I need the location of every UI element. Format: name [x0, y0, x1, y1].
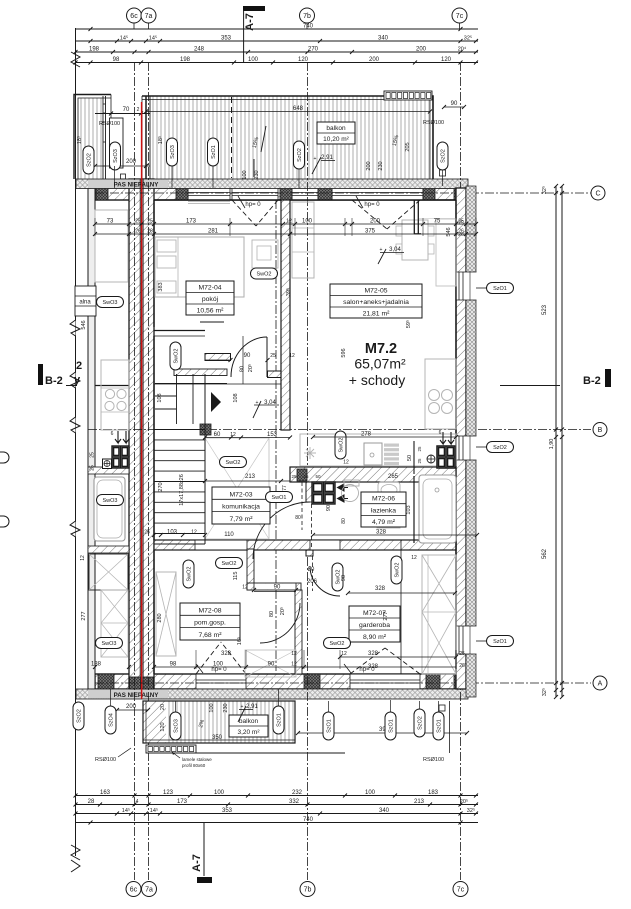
top dimension line row1 — [76, 28, 479, 30]
svg-text:200: 200 — [126, 704, 137, 710]
svg-text:8,90 m²: 8,90 m² — [363, 634, 387, 641]
break mark left line top — [71, 52, 80, 67]
top exterior wall — [95, 188, 466, 200]
grid circle 7b bottom — [300, 882, 315, 897]
door label SwO2 pomgosp wall — [183, 560, 194, 588]
bottom wall pillar 1 — [98, 674, 114, 689]
hall dim line vertical — [242, 336, 244, 384]
svg-text:SzO4: SzO4 — [109, 713, 115, 727]
svg-text:21,81 m²: 21,81 m² — [363, 311, 391, 318]
landing line — [154, 383, 281, 385]
interior wall stub pomgosp — [247, 549, 254, 590]
svg-text:200: 200 — [416, 47, 427, 53]
svg-text:M72-06: M72-06 — [372, 496, 395, 503]
svg-text:+ schody: + schody — [349, 372, 405, 388]
svg-text:7,79 m²: 7,79 m² — [229, 516, 253, 523]
svg-text:26: 26 — [135, 229, 141, 235]
dim extension lines bottom rooms — [94, 650, 96, 669]
party wall centre lines — [139, 179, 141, 689]
bottom wall door opening — [196, 675, 246, 689]
window label SzO2 bottom 4 — [414, 709, 425, 737]
svg-text:98: 98 — [113, 57, 120, 63]
door leaf dashed garderoba — [312, 556, 314, 591]
room label M7.2-04 — [186, 281, 234, 315]
svg-text:173: 173 — [186, 219, 197, 225]
window label SzO1 bottom 1 — [273, 706, 284, 734]
room label M7.2-03 — [212, 487, 270, 524]
break mark left line bottom — [71, 845, 80, 872]
svg-text:RSØ100: RSØ100 — [423, 120, 444, 126]
bottom balcony hatch left part — [143, 701, 166, 743]
svg-text:383: 383 — [158, 282, 164, 291]
interior wall kitchen block — [200, 424, 211, 435]
svg-text:80: 80 — [240, 366, 246, 372]
window label SzO2 right 2 — [476, 446, 487, 448]
top balcony dim 90 — [444, 106, 464, 108]
svg-text:25: 25 — [291, 474, 297, 479]
dim 328 garderoba upper — [348, 592, 455, 594]
svg-text:265: 265 — [388, 474, 399, 480]
svg-text:80: 80 — [295, 515, 301, 521]
grid circle C right — [591, 186, 605, 200]
svg-text:596: 596 — [341, 348, 347, 357]
vent shaft bathroom — [312, 482, 335, 504]
wardrobe garderoba — [422, 555, 456, 674]
svg-text:277: 277 — [383, 611, 389, 620]
svg-text:balkon: balkon — [326, 125, 346, 132]
svg-text:546: 546 — [81, 320, 87, 329]
svg-text:6: 6 — [111, 431, 114, 437]
bottom dimension line row2 — [76, 804, 479, 806]
garderoba window dashed swing bottom — [350, 648, 385, 674]
svg-text:7a: 7a — [145, 887, 153, 894]
svg-text:alna: alna — [79, 300, 91, 306]
svg-text:B-2: B-2 — [45, 375, 63, 387]
svg-text:komunikacja: komunikacja — [222, 504, 260, 511]
interior wall bath north pillar — [297, 469, 307, 481]
svg-text:90: 90 — [274, 585, 281, 591]
door arc garderoba — [310, 566, 340, 596]
svg-text:28: 28 — [88, 799, 95, 805]
svg-text:hp= 0: hp= 0 — [364, 202, 380, 208]
unit balcony left parapet — [141, 96, 143, 179]
window dashed swing top 2 — [352, 200, 387, 229]
svg-text:hp= 0: hp= 0 — [359, 667, 375, 673]
svg-text:340: 340 — [378, 36, 389, 42]
svg-text:120: 120 — [298, 57, 309, 63]
svg-text:20⁵: 20⁵ — [247, 364, 254, 372]
grid line 7c — [460, 62, 462, 880]
top wall pillar 6 — [454, 188, 466, 200]
svg-text:90: 90 — [341, 575, 347, 581]
top wall window opening 4 — [332, 189, 423, 200]
svg-text:SzO3: SzO3 — [113, 149, 119, 163]
svg-text:12: 12 — [191, 530, 197, 536]
svg-text:18⁵: 18⁵ — [157, 136, 164, 144]
svg-text:183: 183 — [428, 790, 439, 796]
svg-text:14⁵: 14⁵ — [149, 35, 157, 42]
svg-text:25: 25 — [135, 219, 141, 225]
svg-text:6c: 6c — [130, 13, 138, 20]
room label M7.2-06 — [361, 492, 406, 527]
neighbour kitchen counter — [101, 360, 129, 430]
door label SwO3 left 1 — [97, 297, 124, 308]
svg-text:+: + — [256, 400, 259, 406]
svg-text:213: 213 — [414, 799, 425, 805]
top dimension line row4 — [76, 62, 479, 64]
svg-text:3,20 m²: 3,20 m² — [237, 729, 260, 736]
svg-text:230: 230 — [254, 170, 260, 179]
kitchen hob star — [304, 447, 316, 459]
svg-text:90: 90 — [451, 101, 458, 107]
interior wall pokoj south niche — [268, 371, 282, 378]
room label M7.2-05 — [330, 284, 422, 318]
svg-text:M72-03: M72-03 — [229, 491, 252, 498]
stair direction arrow — [211, 392, 221, 412]
svg-text:138: 138 — [91, 662, 102, 668]
svg-text:108: 108 — [233, 393, 239, 402]
top wall window opening 3 — [292, 189, 318, 200]
svg-text:80: 80 — [308, 567, 315, 573]
svg-text:10,20 m²: 10,20 m² — [323, 136, 349, 143]
svg-text:14⁵: 14⁵ — [122, 807, 130, 814]
bottom balcony level mark 2,91 — [238, 706, 246, 722]
svg-text:80: 80 — [269, 611, 275, 617]
stair landing hatch strip — [174, 369, 227, 376]
dim row bottom rooms — [154, 666, 456, 668]
svg-text:pokój: pokój — [202, 296, 219, 303]
svg-text:PAS NIEPALNY: PAS NIEPALNY — [114, 182, 160, 189]
svg-text:SzO2: SzO2 — [297, 148, 303, 162]
svg-text:205: 205 — [405, 142, 411, 151]
svg-text:59⁵: 59⁵ — [405, 320, 412, 328]
stair side wall lines — [153, 374, 155, 544]
svg-text:248: 248 — [194, 47, 205, 53]
svg-text:16⁵: 16⁵ — [236, 637, 243, 645]
top balcony dim separator line — [253, 159, 255, 177]
svg-text:12: 12 — [80, 555, 86, 561]
svg-text:25: 25 — [90, 465, 96, 471]
svg-text:A: A — [598, 681, 603, 688]
svg-text:200: 200 — [370, 219, 381, 225]
svg-text:230: 230 — [223, 703, 229, 712]
salon sideboard right — [436, 219, 456, 286]
window label SzO2 top mid — [294, 141, 305, 169]
svg-text:salon+aneks+jadalnia: salon+aneks+jadalnia — [343, 299, 409, 306]
right dim tick — [554, 184, 558, 188]
svg-text:328: 328 — [368, 651, 379, 657]
svg-text:profil 80x60: profil 80x60 — [182, 763, 206, 768]
svg-text:C: C — [595, 191, 600, 198]
window label SzO1 right 3 — [476, 640, 487, 642]
interior wall bath west — [306, 482, 313, 556]
svg-text:100: 100 — [248, 57, 259, 63]
top balcony neighbour parapet corner — [74, 95, 111, 180]
svg-text:SwO2: SwO2 — [339, 438, 345, 453]
leader lines top stadiums — [114, 166, 116, 188]
svg-text:108: 108 — [157, 393, 163, 402]
bath partition line — [413, 476, 415, 543]
svg-text:80: 80 — [341, 518, 347, 524]
svg-text:12: 12 — [291, 651, 297, 657]
cropped stadium fragment left edge 2 — [0, 516, 9, 527]
fire strip band bottom — [76, 689, 468, 699]
svg-text:7,68 m²: 7,68 m² — [198, 632, 222, 639]
svg-text:26: 26 — [458, 232, 464, 238]
svg-text:12: 12 — [289, 353, 295, 359]
svg-text:1,90: 1,90 — [549, 439, 555, 450]
salon wardrobe left — [292, 202, 314, 278]
top balcony dim 648 — [146, 111, 430, 113]
salon niche dim 75 line — [419, 218, 455, 220]
svg-text:4,79 m²: 4,79 m² — [372, 519, 396, 526]
interior wall middle horizontal — [154, 540, 456, 550]
interior wall bath north — [290, 467, 456, 482]
svg-text:SwO3: SwO3 — [102, 641, 117, 647]
svg-text:328: 328 — [375, 586, 386, 592]
level mark 3,04 stairs — [253, 401, 261, 418]
grid circle B right — [593, 423, 607, 437]
svg-text:100: 100 — [365, 790, 376, 796]
svg-text:SwO3: SwO3 — [103, 498, 118, 504]
svg-text:7a: 7a — [145, 13, 153, 20]
svg-text:M72-05: M72-05 — [364, 288, 387, 295]
svg-text:100: 100 — [302, 219, 313, 225]
door label SwO2 pokoj party wall — [170, 342, 181, 370]
interior wall bath west door opening — [306, 502, 314, 549]
svg-text:740: 740 — [303, 817, 314, 823]
svg-text:100: 100 — [242, 170, 248, 179]
svg-text:2,91: 2,91 — [246, 704, 258, 710]
door arc bathroom — [253, 502, 310, 559]
svg-text:+: + — [241, 704, 244, 710]
top wall pillar 4 — [318, 188, 332, 200]
svg-text:280: 280 — [157, 613, 163, 622]
svg-text:3,04: 3,04 — [264, 400, 276, 406]
bottom balcony dim 390 — [298, 732, 467, 734]
interior wall pokoj south left — [205, 354, 231, 361]
grid line 7b — [307, 62, 309, 880]
garderoba inner partition line — [400, 540, 402, 674]
svg-text:163: 163 — [100, 790, 111, 796]
grid line 6c — [134, 62, 136, 880]
svg-text:12: 12 — [291, 662, 297, 668]
bottom wall pillar 4 — [454, 674, 466, 689]
right dim tick — [554, 435, 558, 439]
svg-text:25: 25 — [417, 458, 422, 464]
svg-text:SzO1: SzO1 — [437, 719, 443, 733]
kitchen stove circles — [429, 390, 440, 401]
door label SwO3 left 2 — [97, 495, 124, 506]
grid circle 7c top — [452, 8, 467, 23]
dim texts hall row — [205, 437, 290, 439]
right dimension line 1 — [555, 186, 557, 697]
svg-text:153: 153 — [267, 432, 278, 438]
vent arrows neighbour — [115, 431, 121, 443]
vent shaft kitchen right — [437, 446, 455, 468]
break marks left line middle — [70, 320, 80, 336]
svg-text:230: 230 — [378, 161, 384, 170]
interior wall center vertical — [281, 200, 290, 430]
svg-text:278: 278 — [361, 432, 372, 438]
svg-text:270: 270 — [158, 482, 164, 491]
svg-text:SwO2: SwO2 — [187, 567, 193, 582]
svg-text:7c: 7c — [456, 13, 464, 20]
svg-text:90: 90 — [326, 505, 332, 511]
svg-text:123: 123 — [163, 790, 174, 796]
top dimension line row3 — [76, 51, 479, 53]
interior wall middle opening 1 — [195, 541, 247, 550]
svg-text:A-7: A-7 — [244, 13, 256, 31]
right wall window 1 — [456, 272, 477, 300]
top wall pillar 1 — [96, 188, 108, 200]
top balcony label box balkon — [317, 122, 355, 144]
svg-text:70: 70 — [123, 107, 130, 113]
svg-text:270: 270 — [308, 47, 319, 53]
svg-text:90: 90 — [244, 353, 251, 359]
svg-text:60: 60 — [214, 432, 221, 438]
svg-text:90: 90 — [268, 662, 275, 668]
dim row salon top — [290, 223, 476, 225]
wardrobe neighbour top — [89, 554, 128, 590]
svg-text:100: 100 — [213, 662, 224, 668]
door label SwO2 pokoj top — [251, 268, 278, 279]
party wall red line — [141, 102, 143, 699]
kitchen niche jamb line — [413, 441, 415, 474]
svg-text:26: 26 — [459, 663, 465, 669]
svg-text:+: + — [314, 156, 317, 162]
kitchen drainboard — [384, 444, 399, 447]
svg-text:12: 12 — [343, 460, 349, 466]
top wall window opening 2 — [232, 189, 278, 200]
right dimension line 2 — [561, 186, 563, 697]
svg-text:340: 340 — [379, 808, 390, 814]
svg-text:277: 277 — [81, 611, 87, 620]
svg-text:B-2: B-2 — [583, 375, 601, 387]
section marker A-7 top — [243, 6, 265, 11]
bottom wall pillar 2 — [304, 674, 320, 689]
interior wall pomgosp door wall — [247, 583, 301, 590]
svg-text:20⁵: 20⁵ — [279, 607, 286, 615]
svg-text:12: 12 — [411, 555, 417, 561]
svg-text:SzO2: SzO2 — [87, 153, 93, 167]
svg-text:25: 25 — [458, 221, 464, 227]
svg-text:353: 353 — [221, 36, 232, 42]
svg-text:75: 75 — [434, 219, 441, 225]
svg-text:2,91: 2,91 — [321, 155, 333, 161]
bed pokoj — [155, 237, 244, 297]
svg-text:39⁵: 39⁵ — [285, 288, 292, 296]
door leaf pokoj — [266, 337, 268, 377]
svg-text:25: 25 — [459, 651, 465, 657]
svg-text:SwO2: SwO2 — [257, 272, 272, 278]
svg-text:65,07m²: 65,07m² — [354, 356, 406, 372]
svg-text:332: 332 — [289, 799, 300, 805]
dim extension lines top rooms — [94, 218, 96, 236]
level mark 3,04 salon — [378, 249, 386, 264]
svg-text:20⁴: 20⁴ — [458, 46, 467, 53]
svg-text:12: 12 — [242, 585, 248, 591]
svg-text:RSØ100: RSØ100 — [423, 757, 444, 763]
svg-text:SwO2: SwO2 — [395, 563, 401, 578]
svg-text:25: 25 — [144, 530, 150, 536]
svg-text:206: 206 — [307, 579, 318, 585]
shaft arrows bath — [338, 484, 349, 491]
svg-text:SzO1: SzO1 — [277, 713, 283, 727]
svg-text:50: 50 — [407, 455, 413, 461]
section marker A-7 bottom — [203, 823, 205, 876]
neighbour bed — [95, 210, 128, 282]
svg-text:hp= 0: hp= 0 — [245, 202, 261, 208]
svg-text:14⁵: 14⁵ — [120, 35, 128, 42]
svg-text:100: 100 — [209, 703, 215, 712]
svg-text:14⁵: 14⁵ — [150, 807, 158, 814]
svg-text:PAS NIEPALNY: PAS NIEPALNY — [114, 692, 160, 699]
property line left — [75, 28, 77, 856]
svg-text:20: 20 — [160, 704, 166, 710]
grid line 7a — [148, 62, 150, 880]
svg-text:25: 25 — [270, 353, 276, 359]
door label SwO2 garderoba — [324, 638, 351, 649]
svg-text:110: 110 — [224, 532, 234, 538]
svg-text:2: 2 — [76, 360, 82, 372]
svg-text:115: 115 — [233, 572, 239, 581]
neighbour balcony ladder lines — [102, 96, 104, 179]
top balcony outline — [142, 96, 433, 179]
svg-text:350: 350 — [212, 735, 223, 741]
svg-text:328: 328 — [221, 651, 232, 657]
vent arrows kitchen right — [440, 432, 446, 444]
svg-text:SwO1: SwO1 — [272, 495, 287, 501]
landing edge lines — [154, 330, 205, 332]
party wall bottom pillar left — [130, 677, 141, 689]
right dim tick — [554, 695, 558, 699]
neighbour sink circles — [105, 389, 114, 398]
svg-text:200: 200 — [366, 161, 372, 170]
door label SwO2 bath right — [391, 556, 402, 584]
window label SzO1 top — [208, 138, 219, 166]
right dim tick — [554, 688, 558, 692]
svg-text:103: 103 — [406, 505, 412, 514]
svg-text:32⁵: 32⁵ — [467, 807, 475, 814]
bottom wall window opening — [350, 675, 420, 689]
grid circle 7a bottom — [142, 882, 157, 897]
neighbour rain pipe rect — [110, 118, 124, 168]
window label SzO1 right 1 — [476, 287, 487, 289]
svg-text:M72-04: M72-04 — [198, 285, 221, 292]
window label SzO3 top 1 — [110, 142, 121, 170]
room label M7.2-08 — [180, 603, 240, 640]
window dashed swing top 1 — [232, 200, 256, 226]
door dashed line bath — [311, 504, 313, 549]
top dimension line row2 — [76, 40, 479, 42]
neighbour wall hatch bands — [88, 467, 129, 474]
left neighbour wall — [88, 186, 95, 689]
svg-text:SzO1: SzO1 — [389, 719, 395, 733]
svg-text:546: 546 — [446, 227, 452, 236]
window label SzO3 bottom — [170, 712, 181, 740]
svg-text:120: 120 — [160, 722, 166, 731]
leader lines bottom stadiums — [110, 689, 112, 706]
section line A-7 middle — [275, 200, 277, 671]
svg-text:SwO2: SwO2 — [226, 460, 241, 466]
window label SzO1 bottom 2 — [323, 712, 334, 740]
window label SzO2 bottom far left — [73, 702, 84, 730]
svg-text:375: 375 — [365, 229, 376, 235]
bottom balcony railing lamele — [146, 745, 196, 753]
door label SwO2 pomgosp — [216, 558, 243, 569]
svg-text:SzO2: SzO2 — [493, 445, 507, 451]
